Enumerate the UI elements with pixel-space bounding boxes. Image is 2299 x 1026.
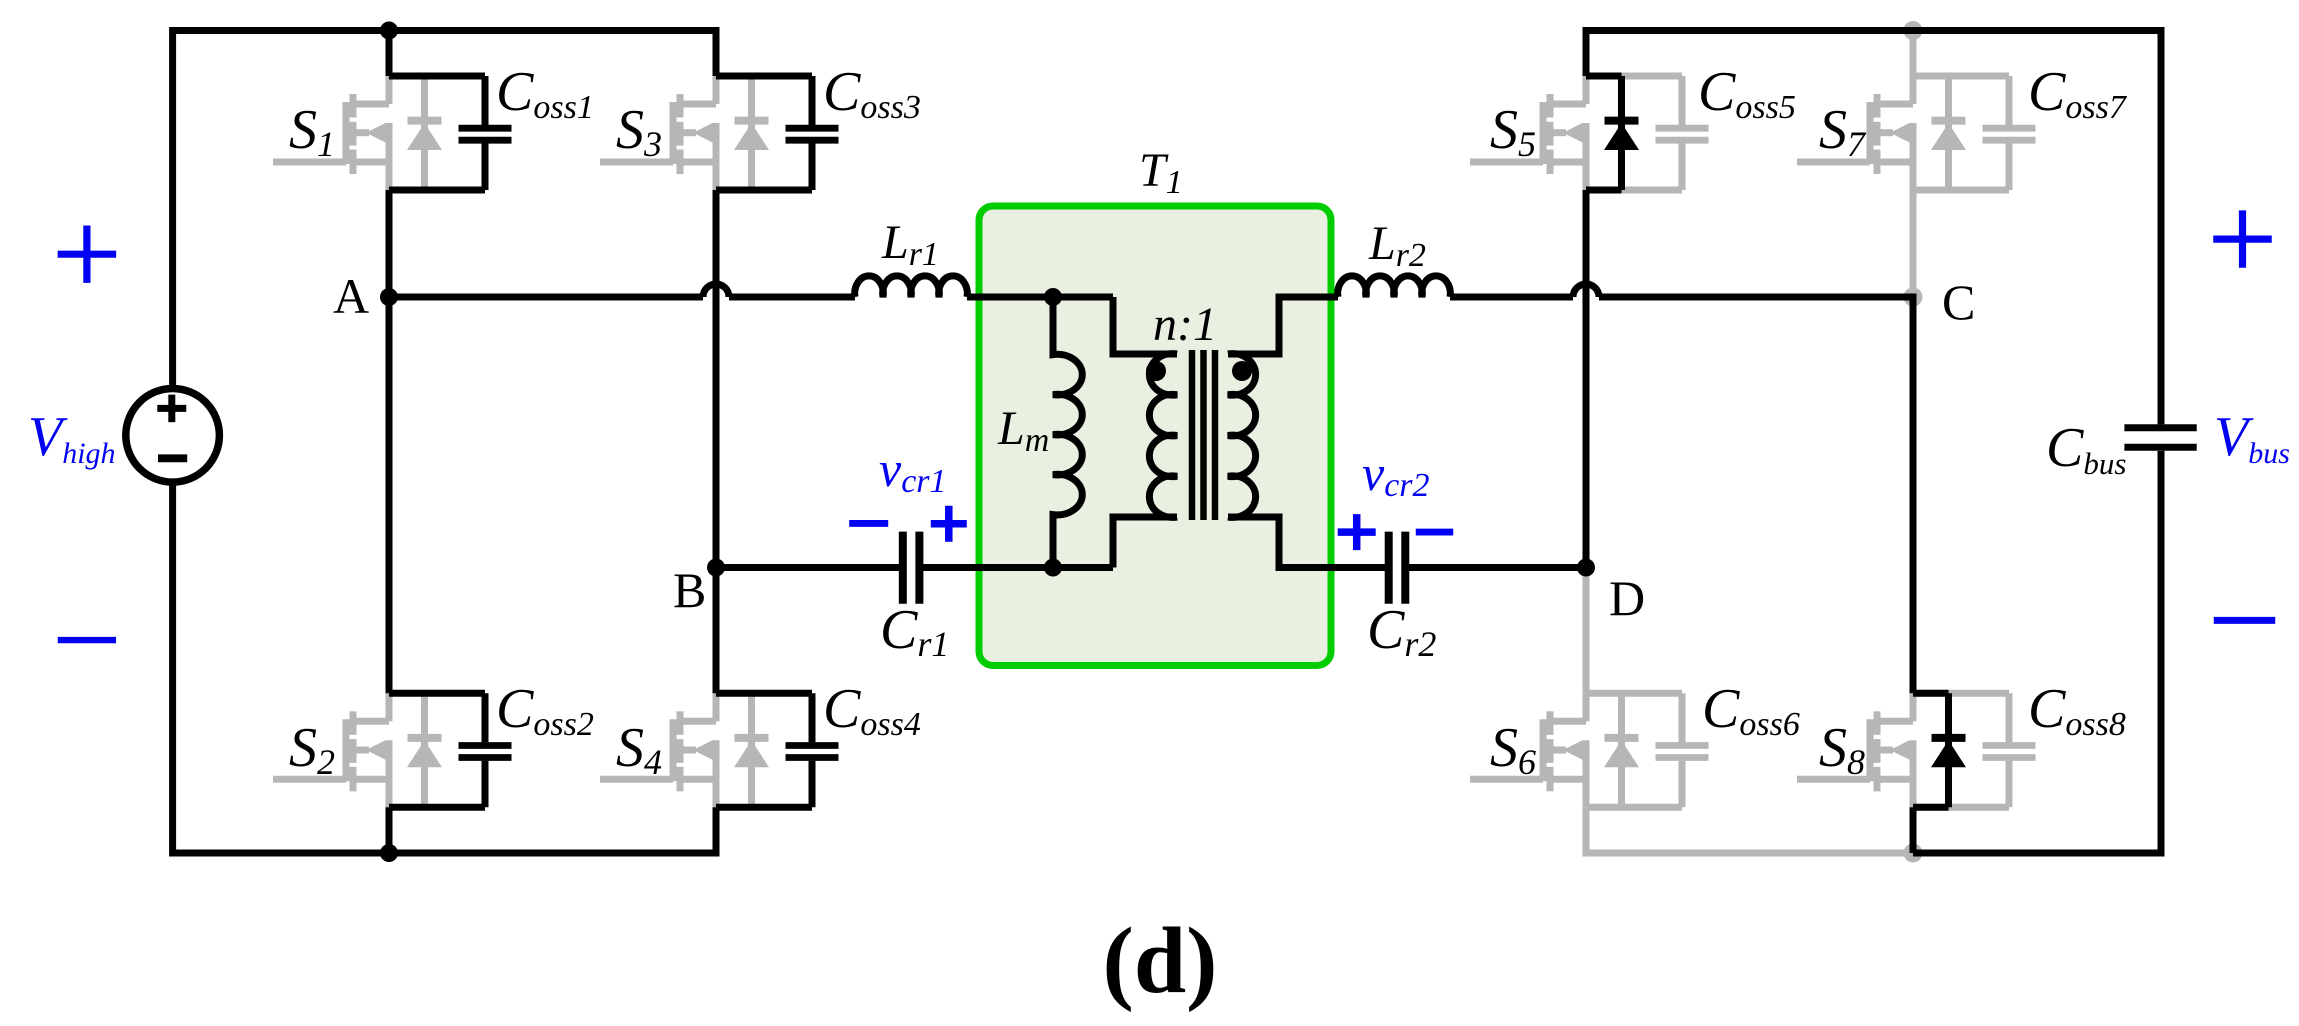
capacitor Coss3	[786, 76, 839, 190]
junction dot Lm top	[1044, 288, 1062, 306]
svg-text:B: B	[673, 562, 706, 618]
wire: node A to hop	[389, 294, 703, 301]
wire: S5 leg down to node D	[1583, 190, 1590, 568]
wire: Lr1 into box to primary jog	[967, 294, 1113, 301]
capacitor Coss8	[1983, 693, 2036, 807]
svg-text:Coss2: Coss2	[496, 678, 594, 743]
svg-text:Cbus: Cbus	[2046, 417, 2126, 481]
wire: Lr2 to hop	[1450, 294, 1573, 301]
junction dot Lm bottom	[1044, 559, 1062, 577]
wire: S2 leg bottom	[386, 807, 393, 853]
svg-text:Coss5: Coss5	[1698, 61, 1796, 126]
transistor S6	[1470, 693, 1586, 807]
wire: lower left rail and bottom-left bus	[173, 482, 716, 853]
svg-text:S3: S3	[616, 99, 662, 164]
wire: gray S6 leg to gray bottom wire	[1586, 807, 1913, 853]
wire: S1/S2 leg top	[386, 31, 393, 77]
svg-text:S7: S7	[1819, 99, 1867, 164]
svg-text:A: A	[333, 268, 369, 324]
wire: secondary top jog out to Lr2	[1228, 297, 1338, 354]
svg-text:T1: T1	[1139, 144, 1183, 201]
transformer primary winding	[1149, 354, 1177, 518]
frame of S2 cell	[389, 690, 485, 697]
gray frame of S6 cell	[1586, 690, 1682, 697]
transistor S4	[600, 693, 716, 807]
black frame part of S5 cell	[1586, 73, 1622, 80]
transistor S7	[1797, 76, 1913, 190]
wire: gray leg from node D down to S6	[1583, 568, 1590, 694]
minus mark V_high side	[58, 637, 116, 643]
capacitor Coss1	[459, 76, 512, 190]
capacitor Coss4	[786, 693, 839, 807]
wire: node B to Cr1	[716, 564, 903, 571]
svg-text:Cr2: Cr2	[1367, 599, 1436, 664]
body diode of S4	[734, 693, 769, 807]
svg-text:Coss1: Coss1	[496, 61, 594, 126]
transformer secondary phase dot	[1232, 361, 1252, 381]
junction dot bottom of S2 leg	[380, 844, 398, 862]
svg-text:S4: S4	[616, 717, 662, 782]
gray frame of S7 cell	[1913, 73, 2009, 80]
svg-text:Coss4: Coss4	[823, 678, 921, 743]
wire: primary top jog	[1113, 297, 1177, 354]
wire: hop to node C	[1599, 294, 1913, 301]
inductor Lr2	[1338, 276, 1451, 297]
wire: hop to Lr1	[729, 294, 855, 301]
wire: S3/S4 leg through node B	[713, 190, 720, 693]
transformer primary phase dot	[1146, 361, 1166, 381]
svg-text:S6: S6	[1490, 717, 1536, 782]
body diode of S1	[407, 76, 442, 190]
svg-text:S2: S2	[289, 717, 335, 782]
body diode of S3	[734, 76, 769, 190]
wire: primary bottom jog	[1113, 517, 1177, 568]
inductor Lm lead and coil	[1053, 297, 1082, 568]
transformer T1 enclosure box	[979, 206, 1331, 666]
wire: S8 leg bottom	[1910, 807, 1917, 853]
wire: S1/S2 leg through node A	[386, 190, 393, 693]
wire: lower right rail and bottom-right bus	[1913, 451, 2161, 853]
svg-text:Coss7: Coss7	[2028, 61, 2128, 126]
junction dot node B	[707, 559, 725, 577]
wire hop over S3 leg	[703, 284, 729, 297]
svg-text:S8: S8	[1819, 717, 1865, 782]
plus mark of v_cr2	[1338, 514, 1376, 550]
gray junction dot node C	[1904, 288, 1923, 307]
plus mark V_high side	[58, 226, 117, 283]
gray frame of S8 cell	[1913, 690, 2009, 697]
plus mark inside source	[157, 395, 186, 423]
capacitor Coss5	[1656, 76, 1709, 190]
transistor S3	[600, 76, 716, 190]
transformer secondary winding	[1228, 354, 1256, 518]
capacitor Coss2	[459, 693, 512, 807]
inductor Lr1	[855, 276, 968, 297]
frame of S4 cell	[716, 690, 812, 697]
capacitor Coss6	[1656, 693, 1709, 807]
wire: S5 leg top and top-right bus and upper right rail	[1586, 31, 2161, 425]
svg-text:(d): (d)	[1103, 909, 1218, 1013]
transistor S1	[273, 76, 389, 190]
transistor S5	[1470, 76, 1586, 190]
gray frame of S5 cell	[1586, 73, 1682, 80]
transistor S8	[1797, 693, 1913, 807]
wire: Cr2 to node D	[1405, 564, 1586, 571]
minus mark of v_cr2	[1416, 529, 1454, 536]
minus mark V_bus side	[2214, 617, 2276, 624]
gray junction dot bottom of S8 leg	[1904, 844, 1923, 863]
capacitor Coss7	[1983, 76, 2036, 190]
svg-text:vcr1: vcr1	[879, 441, 947, 500]
svg-text:Coss3: Coss3	[823, 61, 921, 126]
transformer core lines	[1192, 350, 1215, 520]
plus mark of v_cr1	[931, 506, 967, 542]
minus mark inside source	[158, 454, 187, 462]
plus mark V_bus side	[2213, 210, 2272, 267]
wire hop over S5 leg	[1573, 284, 1599, 297]
junction dot node D	[1577, 559, 1595, 577]
junction dot top of S1 leg	[380, 22, 398, 40]
transistor S2	[273, 693, 389, 807]
frame of S3 cell	[716, 73, 812, 80]
svg-text:Cr1: Cr1	[880, 599, 949, 664]
voltage source V_high circle	[126, 389, 220, 483]
svg-text:vcr2: vcr2	[1362, 445, 1430, 504]
frame of S1 cell	[389, 73, 485, 80]
wire: gray leg above S7	[1910, 31, 1917, 77]
capacitor Cbus	[2124, 428, 2196, 447]
minus mark of v_cr1	[849, 520, 888, 527]
svg-text:C: C	[1942, 274, 1975, 330]
body diode of S7	[1931, 76, 1966, 190]
body diode of S6	[1604, 693, 1639, 807]
svg-text:n:1: n:1	[1153, 298, 1217, 351]
svg-text:S1: S1	[289, 99, 335, 164]
svg-text:Coss8: Coss8	[2028, 678, 2126, 743]
wire: gray leg from S7 down to node C	[1910, 190, 1917, 297]
wire: S8 leg from node C down	[1910, 294, 1917, 694]
svg-text:D: D	[1609, 570, 1645, 626]
capacitor Cr1	[903, 532, 920, 604]
body diode of S2	[407, 693, 442, 807]
svg-text:Lr1: Lr1	[881, 216, 939, 273]
junction dot node A	[380, 288, 398, 306]
svg-text:Coss6: Coss6	[1702, 678, 1800, 743]
gray junction dot top of S7 leg	[1904, 21, 1923, 40]
black frame part of S8 cell	[1913, 690, 1949, 697]
capacitor Cr2	[1389, 532, 1406, 604]
body diode of S8 (conducting, black)	[1931, 693, 1966, 807]
wire: Cr1 to primary bottom	[919, 564, 1113, 571]
wire: secondary bottom jog to Cr2	[1228, 517, 1389, 568]
wire: top-left bus and upper left rail	[173, 31, 716, 389]
svg-text:Lr2: Lr2	[1368, 217, 1426, 274]
svg-text:S5: S5	[1490, 99, 1536, 164]
svg-text:Vbus: Vbus	[2214, 406, 2290, 470]
body diode of S5 (conducting, black)	[1604, 76, 1639, 190]
svg-text:Vhigh: Vhigh	[28, 406, 116, 470]
